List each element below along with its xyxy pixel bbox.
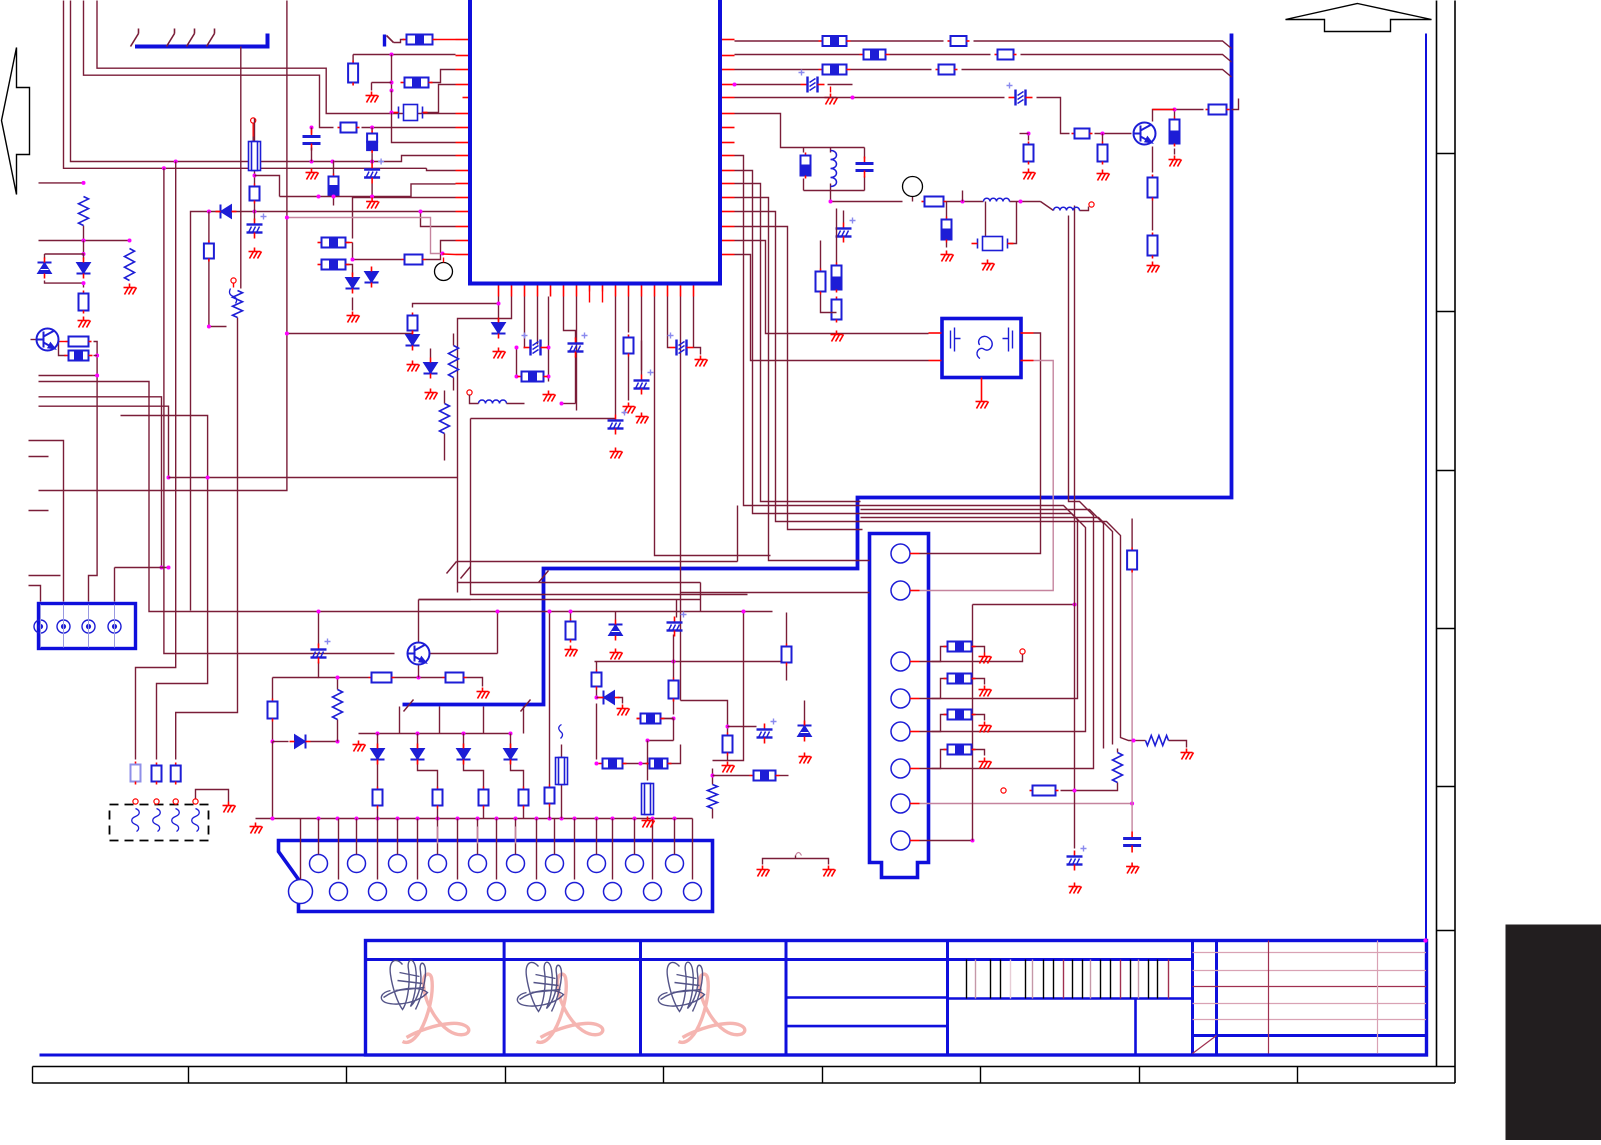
resistor R28 <box>922 201 925 203</box>
wire <box>45 254 84 259</box>
terminal T1 <box>133 799 138 804</box>
inductor L4 <box>1054 207 1080 210</box>
wire <box>1061 783 1118 791</box>
zener D15 <box>798 721 812 742</box>
wire bus3 b <box>851 69 932 71</box>
wire J5 rc 2 <box>932 715 948 732</box>
diode D12 <box>504 744 518 765</box>
ground RN6 <box>543 391 556 402</box>
wire <box>831 191 903 202</box>
wire net B <box>64 1 427 169</box>
wire terminal 4 to ground <box>196 790 229 802</box>
diode D14 <box>609 620 623 641</box>
connector J4 pin bottom 3 <box>369 883 387 901</box>
wire <box>443 253 456 256</box>
title block diagonal <box>1193 1036 1217 1054</box>
wire <box>668 745 681 764</box>
wire net A drop to R-L1 <box>136 162 176 760</box>
resistor R25 <box>1152 175 1154 178</box>
resistor network RN5 <box>318 264 322 266</box>
IC U1 right pin 29 <box>722 211 735 213</box>
wire bus1 c <box>974 41 1232 49</box>
ground g1 <box>366 92 379 103</box>
right border inner line <box>1436 1 1438 1067</box>
wire <box>254 204 256 212</box>
wire <box>618 698 623 704</box>
ground C20 <box>249 248 262 259</box>
connector J5 pin 6 <box>891 759 910 778</box>
IC U1 right pin 24 <box>722 142 735 144</box>
right border tick <box>1437 786 1456 788</box>
wire <box>1169 741 1187 748</box>
wire <box>377 734 379 749</box>
resistor R32 <box>272 699 274 702</box>
wire net A <box>71 1 312 162</box>
connector J5 pin 7 <box>891 794 910 813</box>
wire <box>637 718 674 720</box>
ground C6 <box>636 413 649 424</box>
wire to node circle <box>443 258 445 263</box>
diode D9 <box>371 744 385 765</box>
shielded module coil 1 <box>132 809 140 832</box>
resistor R39 <box>523 787 525 790</box>
ground g8 <box>982 260 995 271</box>
blue bus hatch a <box>404 700 414 712</box>
right border tick <box>1437 311 1456 313</box>
approval stamp 2 <box>537 974 603 1042</box>
wire <box>1102 134 1104 142</box>
ground D5 <box>493 348 506 359</box>
wire stub <box>29 456 49 458</box>
wire <box>803 148 805 153</box>
wire <box>596 704 598 760</box>
wire <box>828 84 853 86</box>
bottom ruler band top line <box>33 1066 1456 1068</box>
wire <box>727 711 729 733</box>
wire band L1 <box>457 561 738 563</box>
IC U1 right pin 17 <box>722 39 735 41</box>
IC U1 right pin 21 <box>722 97 735 99</box>
resistor R55 <box>254 184 256 187</box>
wire <box>673 662 675 678</box>
signature 3 <box>658 962 704 1011</box>
wire to IC pin 4 <box>422 85 456 113</box>
wire <box>786 613 788 644</box>
wire <box>1152 201 1154 231</box>
IC U1 right pin 27 <box>722 183 735 185</box>
IC U1 left pin 16 <box>456 254 469 256</box>
title block divider 6 <box>1215 941 1218 1056</box>
wire <box>640 715 642 719</box>
wire <box>830 184 832 191</box>
diode D16 <box>216 205 237 219</box>
wire <box>272 722 274 742</box>
wire <box>333 161 335 174</box>
wire <box>39 376 98 602</box>
up navigation arrow <box>1286 4 1432 32</box>
wire <box>728 726 757 728</box>
wire <box>804 190 865 192</box>
wire <box>94 342 98 376</box>
resistor R1 <box>79 197 89 226</box>
wire to SAW gnd side <box>735 255 929 361</box>
wire <box>507 403 525 405</box>
ground D7 <box>407 361 420 372</box>
wire from Q2 emitter <box>1152 147 1154 173</box>
wire SAW out to J5 pin2 <box>920 361 1054 591</box>
wire <box>273 677 319 679</box>
terminal T5 <box>1089 202 1094 207</box>
wire J5 rc2 0 <box>972 647 985 653</box>
wire J5 rc 3 <box>932 750 948 769</box>
wire <box>804 701 806 725</box>
wire from IC pin 37 <box>548 297 550 382</box>
wire <box>497 612 499 654</box>
SAW filter U2 internal symbol <box>951 328 1013 361</box>
ground g18 <box>823 866 836 877</box>
wire to IC pin 2 <box>353 54 455 56</box>
fuse F3 <box>642 784 654 815</box>
wire to IC pin 8 <box>392 113 456 143</box>
shielded module dashed outline <box>110 805 209 841</box>
bottom ruler tick <box>1297 1067 1299 1084</box>
connector J4 pin top 8 <box>588 855 606 873</box>
wire <box>318 612 320 647</box>
black corner rectangle <box>1506 925 1601 1141</box>
ground R13 <box>623 403 636 414</box>
connector J3 pin 4 <box>108 620 121 633</box>
inductor L3 <box>984 198 1010 201</box>
wire to IC pin 10 <box>427 168 456 170</box>
wire to J4 top pin <box>437 819 439 855</box>
wire to J4 bottom pin <box>652 819 654 880</box>
bottom connector J4 body <box>279 841 713 912</box>
IC U1 bottom pin 37 <box>550 286 552 297</box>
wire <box>252 124 254 137</box>
wire <box>1174 110 1176 117</box>
ground R48 <box>565 646 578 657</box>
wire bus GND rail <box>256 818 693 820</box>
wire <box>1232 99 1239 110</box>
resistor R49 <box>1030 790 1033 792</box>
wire <box>516 348 518 377</box>
wire from connector J1 <box>240 47 242 289</box>
connector J4 pin top 1 <box>310 855 328 873</box>
title block divider 3 <box>785 941 788 1056</box>
wire from Q2 collector <box>1153 110 1204 122</box>
ground g17 <box>757 866 770 877</box>
wire to J4 top pin <box>318 819 320 855</box>
connector J4 pin bottom 7 <box>528 883 546 901</box>
resistor R24 <box>1174 117 1176 120</box>
wire J5 pin7 <box>920 803 1133 805</box>
wire <box>115 567 169 569</box>
blue bus line right vertical <box>403 34 1232 705</box>
wire <box>523 809 525 819</box>
IC U1 bottom pin 43 <box>628 286 630 297</box>
diode D3 <box>346 273 360 294</box>
IC U1 right pin 32 <box>722 254 735 256</box>
wire SAW out to J5 pin1 <box>920 333 1041 554</box>
resistor R54 <box>946 217 948 220</box>
connector J4 pin top 3 <box>389 855 407 873</box>
IC U1 right pin 31 <box>722 240 735 242</box>
bottom ruler tick <box>663 1067 665 1084</box>
wire long vertical <box>1074 206 1076 849</box>
wire <box>371 184 373 197</box>
title block row lines <box>1193 953 1427 1020</box>
wire pink stub <box>515 827 517 844</box>
wire to J4 bottom pin <box>300 819 302 880</box>
wire to R-net1 <box>394 40 405 43</box>
IC U1 left pin 1 <box>456 39 469 41</box>
switch hook <box>230 289 237 304</box>
right border outer line <box>1454 1 1456 1084</box>
IC U1 left pin 12 <box>456 197 469 199</box>
IC U1 right pin 28 <box>722 197 735 199</box>
zener D7 <box>406 330 420 351</box>
fuse F1 <box>249 142 261 171</box>
wire <box>680 593 682 701</box>
wire <box>713 775 750 777</box>
wire <box>549 612 551 785</box>
bottom ruler tick <box>188 1067 190 1084</box>
title block cell line a <box>786 996 948 999</box>
resistor network RN11 <box>599 763 603 765</box>
wire bus3 a <box>735 69 819 71</box>
ground C1 <box>306 169 319 180</box>
wire from IC pin 48 <box>693 297 695 348</box>
title block bottom row line <box>1193 1034 1427 1037</box>
wire <box>727 756 729 761</box>
resistor network RN1 <box>65 355 69 357</box>
IC U1 bottom pin 39 <box>576 286 578 297</box>
wire bus stub 2 <box>439 707 441 734</box>
resistor R50 <box>1131 548 1133 551</box>
wire <box>464 761 484 787</box>
wire <box>676 600 678 618</box>
ground C18 <box>1069 883 1082 894</box>
capacitor C3 (trimmer) <box>522 333 548 356</box>
wire to J3 pin 1 <box>29 586 41 602</box>
wire <box>83 241 85 255</box>
wire <box>1131 519 1133 548</box>
resistor R22 <box>1102 142 1104 145</box>
wire <box>254 119 256 142</box>
wire net B drop to Q3 <box>164 168 395 653</box>
inductor L1 coil <box>479 400 507 404</box>
wire from IC pin 47 <box>681 297 870 593</box>
wire stub 2 <box>29 575 61 577</box>
ground g5 <box>1147 262 1160 273</box>
wire <box>306 196 391 198</box>
wire <box>39 240 130 242</box>
inductor hook L5 <box>559 725 563 739</box>
title block divider 1 <box>503 941 506 1056</box>
resistor R30 <box>836 297 838 300</box>
wire <box>628 357 630 401</box>
wire <box>596 690 598 698</box>
connector J1 pin lead 4 <box>207 34 215 47</box>
wire net V8 <box>735 198 870 561</box>
connector J2 corner <box>383 35 386 47</box>
title block revision ticks <box>967 960 1169 999</box>
node marker circle near IC <box>435 263 453 281</box>
wire <box>510 734 512 749</box>
IC U1 bottom pin 33 <box>498 286 500 297</box>
wire <box>371 153 373 163</box>
wire to J4 bottom pin <box>377 819 379 880</box>
wire bus1 a <box>735 40 819 42</box>
wire bus1 b <box>851 40 944 42</box>
resistor R52 <box>1146 736 1169 746</box>
wire J5 rc 0 <box>932 647 948 662</box>
wire <box>946 202 948 217</box>
transistor Q2 <box>1134 123 1156 145</box>
wire <box>700 583 702 612</box>
resistor network RN10 <box>637 718 641 720</box>
bottom ruler tick <box>822 1067 824 1084</box>
terminal T9 <box>231 278 236 283</box>
wire <box>233 284 235 288</box>
wire <box>391 55 393 91</box>
title block header line <box>366 958 1193 961</box>
wire <box>830 87 832 93</box>
shielded module coil 4 <box>192 809 200 832</box>
capacitor C20 (electrolytic) <box>247 214 267 239</box>
wire to IC pin 3 <box>431 70 456 83</box>
wire net G branch <box>169 477 458 479</box>
wire to Q1 base <box>31 339 37 341</box>
zener diode D1 <box>38 258 52 279</box>
wire <box>45 281 84 288</box>
wire <box>272 742 274 819</box>
resistor R21 <box>1028 142 1030 145</box>
wire from IC pin 46 <box>668 297 670 348</box>
wire to R16 <box>413 304 499 308</box>
wire <box>673 695 675 715</box>
transistor Q1 <box>37 329 59 351</box>
ground R54 <box>941 251 954 262</box>
resistor R20 <box>1072 133 1075 135</box>
resistor R16 <box>412 313 414 316</box>
wire to J4 bottom pin <box>612 819 614 880</box>
resistor network RN17 <box>750 775 754 777</box>
terminal L1 <box>467 390 472 395</box>
blue frame line right <box>1425 34 1427 941</box>
resistor R11 <box>333 174 335 177</box>
wire to IC pin 1 <box>437 39 456 41</box>
resistor R4 <box>66 341 69 343</box>
resistor R6 <box>208 241 210 244</box>
wire <box>1131 573 1133 832</box>
wire <box>1041 202 1054 211</box>
wire <box>209 260 227 327</box>
wire <box>712 769 714 785</box>
capacitor C6 (electrolytic) <box>634 370 654 395</box>
wire to pin 14 line <box>421 212 456 227</box>
resonator X1 <box>972 237 1014 251</box>
wire to J4 top pin <box>477 819 479 855</box>
shielded module coil 3 <box>172 809 180 832</box>
wire to J4 bottom pin <box>417 819 419 880</box>
wire from IC pin 35 <box>524 297 525 348</box>
wire <box>346 265 353 276</box>
IC U1 bottom pin 45 <box>654 286 656 297</box>
wire <box>673 635 675 662</box>
IC U1 bottom pin 42 <box>615 286 617 297</box>
resistor network RN7 <box>819 40 823 42</box>
wire <box>346 242 353 244</box>
connector J2 pin lead <box>387 36 394 43</box>
connector J4 pin bottom 1 <box>289 880 313 904</box>
connector J5 pin 3 <box>891 652 910 671</box>
wire from IC pin 45 <box>655 297 771 556</box>
resistor R14 <box>449 346 459 378</box>
wire <box>712 809 714 819</box>
wire <box>254 171 256 184</box>
ground gj2 <box>979 722 992 733</box>
resistor network RN3 <box>401 82 405 84</box>
title block divider 2 <box>639 941 642 1056</box>
wire <box>615 612 617 620</box>
IC U1 right pin 18 <box>722 55 735 57</box>
connector J4 pin top 10 <box>666 855 684 873</box>
title block outer frame <box>366 941 1427 1056</box>
resistor R13 <box>628 335 630 338</box>
wire <box>843 211 845 223</box>
IC U1 left pin 15 <box>456 240 469 242</box>
resistor R29 <box>836 263 838 266</box>
wire <box>272 678 274 699</box>
ground g12 <box>477 688 490 699</box>
wire net V7 <box>735 184 861 502</box>
title block corner dot <box>1423 938 1427 942</box>
wire diode rail <box>359 733 511 735</box>
wire <box>377 761 379 787</box>
wire <box>549 807 551 819</box>
wire <box>821 295 837 313</box>
wire <box>735 84 801 86</box>
wire <box>254 212 256 221</box>
wire <box>418 761 438 787</box>
IC U1 bottom pin 41 <box>602 286 604 292</box>
wire <box>864 148 866 159</box>
wire to J4 top pin <box>554 819 556 855</box>
wire from IC pin 44 <box>641 297 643 371</box>
wire <box>417 734 419 749</box>
wire <box>830 148 832 153</box>
ground g7 <box>1097 170 1110 181</box>
resistor R48 <box>570 619 572 622</box>
wire to R-net3 <box>353 198 456 239</box>
wire <box>463 734 465 749</box>
node circle <box>903 177 923 197</box>
wire net H to R-L3 <box>176 318 238 760</box>
top-left connector J1 body <box>135 34 268 47</box>
wire 418 line <box>471 418 616 420</box>
wire <box>371 128 373 131</box>
resistor R31 <box>820 269 822 272</box>
wire <box>319 662 369 678</box>
IC U1 left pin 8 <box>456 142 469 144</box>
connector J4 pin top 4 <box>429 855 447 873</box>
ground gj1 <box>979 686 992 697</box>
resistor R-L3 <box>175 763 177 766</box>
wire <box>1028 134 1030 141</box>
ground g2 <box>347 312 360 323</box>
wire to IC pin 6 <box>97 1 456 114</box>
